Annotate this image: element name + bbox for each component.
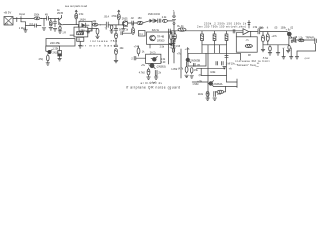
svg-text:Input: Input	[19, 12, 25, 16]
capacitor to ground	[96, 28, 99, 34]
resistor 150k	[34, 17, 40, 20]
svg-text:ft: ft	[267, 27, 269, 30]
svg-text:1 R: 1 R	[62, 32, 66, 34]
wire drop	[43, 18, 45, 26]
ground	[213, 97, 217, 99]
feedback box	[236, 37, 257, 52]
wire	[149, 44, 151, 48]
ground	[78, 45, 82, 47]
svg-text:.05: .05	[274, 27, 278, 30]
wire branch right	[46, 46, 60, 51]
capacitor after diodes	[158, 19, 160, 22]
svg-text:(0.: (0.	[199, 74, 202, 77]
wire	[136, 57, 146, 59]
wire emitter	[288, 36, 290, 45]
svg-text:0.1: 0.1	[139, 33, 143, 36]
transistor Q7	[186, 58, 190, 62]
wire B+ rail	[173, 12, 175, 16]
transistor Q2	[122, 21, 127, 26]
capacitor on column	[225, 55, 228, 57]
resistor pair left a	[170, 31, 172, 34]
ground	[87, 31, 90, 33]
detector box T1	[79, 21, 92, 31]
wire	[40, 17, 46, 19]
svg-text:+17k: +17k	[271, 35, 277, 38]
svg-text:2N363B: 2N363B	[190, 59, 200, 63]
pickup transducer box X1	[4, 17, 13, 26]
svg-text:2N363A: 2N363A	[213, 83, 222, 86]
wire drop mid b	[219, 45, 221, 54]
svg-text:150: 150	[138, 17, 143, 20]
wire bus	[170, 30, 243, 32]
svg-text:1 Mfd: 1 Mfd	[192, 83, 199, 86]
resistor vertical mid	[132, 23, 134, 28]
svg-text:m.: m.	[257, 66, 260, 68]
ground	[185, 74, 189, 76]
wire	[49, 17, 59, 19]
svg-text:(0.1: (0.1	[29, 23, 34, 26]
svg-text:150k: 150k	[34, 14, 40, 17]
wire	[215, 91, 217, 93]
ground	[25, 26, 27, 30]
driver box	[146, 54, 161, 63]
volume control box	[46, 39, 75, 47]
resistor column 3	[225, 34, 228, 41]
resistor 150	[137, 21, 143, 24]
output box left	[187, 53, 189, 66]
capacitor .05 d	[192, 63, 194, 66]
svg-text:1N34 1N34: 1N34 1N34	[148, 13, 161, 16]
svg-text:+A: +A	[229, 67, 232, 70]
transistor Q3	[150, 35, 156, 41]
node B	[100, 24, 101, 25]
ground	[268, 52, 272, 54]
resistor inside pot	[77, 32, 84, 35]
transistor Q6	[287, 32, 292, 37]
ground	[282, 56, 285, 58]
capacitor on rail	[172, 36, 175, 38]
wire	[167, 20, 174, 22]
SECTION: q1 stage	[57, 5, 88, 34]
resistor emitter q1	[59, 27, 61, 31]
wire cross lower	[201, 74, 226, 76]
capacitor 50	[290, 40, 292, 42]
wire emitter to ground	[59, 24, 61, 27]
ground	[42, 27, 46, 29]
wiper wire	[70, 34, 74, 36]
ground	[276, 52, 280, 54]
emitter bus wire	[263, 44, 289, 46]
wire	[108, 24, 122, 26]
capacitor .05 out	[257, 29, 259, 34]
wire	[143, 21, 150, 23]
wire	[224, 86, 226, 92]
svg-text:1 25k: 1 25k	[53, 47, 60, 50]
wire feedback vertical	[236, 79, 238, 82]
supply arrow	[118, 11, 120, 14]
svg-text:(0.02: (0.02	[305, 58, 311, 60]
svg-text:(2N363): (2N363)	[157, 65, 166, 68]
wire	[187, 48, 189, 58]
output box top edge	[188, 52, 240, 54]
wire	[13, 18, 34, 20]
capacitor	[114, 44, 117, 46]
svg-text:if airplane QR noise (guard: if airplane QR noise (guard	[126, 86, 180, 90]
capacitor bus input	[168, 29, 170, 33]
wire	[91, 24, 94, 26]
wire	[173, 24, 175, 36]
resistor 47k vertical b	[47, 55, 50, 61]
svg-text:4.7k0: 4.7k0	[139, 71, 146, 74]
svg-text:110k: 110k	[198, 93, 204, 96]
resistor rail	[172, 48, 174, 52]
resistor vertical	[115, 33, 118, 39]
ground jack return	[295, 56, 298, 58]
capacitor 2k	[154, 70, 156, 75]
resistor 10k	[93, 23, 98, 26]
wire cross upper	[197, 67, 226, 69]
wire return	[297, 44, 316, 56]
long wire column3	[226, 53, 228, 82]
capacitor pair a	[215, 62, 217, 66]
resistor 470k vertical	[117, 14, 120, 20]
resistor drop b	[267, 32, 269, 34]
svg-text:2.2k: 2.2k	[162, 16, 167, 19]
input jack J1	[20, 17, 22, 22]
resistor 4.7k vertical	[147, 69, 150, 75]
capacitor .02	[131, 21, 133, 25]
svg-text:TRFAIR: TRFAIR	[305, 37, 314, 40]
ground	[290, 56, 293, 58]
wire bottom left	[192, 81, 208, 83]
wire rail stub	[172, 40, 174, 48]
coupling tick	[16, 18, 18, 22]
capacitor C1	[105, 22, 107, 27]
capacitor to ground	[54, 18, 56, 21]
svg-text:1R500: 1R500	[157, 39, 165, 42]
capacitor pair b	[221, 62, 223, 66]
SECTION: detector	[79, 10, 174, 35]
svg-text:1k: 1k	[142, 51, 145, 54]
resistor feedback b	[217, 90, 224, 93]
capacitor horizontal	[120, 32, 122, 35]
SECTION: bus columns	[131, 22, 247, 85]
ground stub	[223, 66, 226, 68]
ground	[49, 27, 53, 29]
svg-text:50: 50	[294, 42, 297, 44]
transistor Q4	[152, 57, 156, 61]
svg-text:2.5k: 2.5k	[160, 45, 165, 48]
resistor feedback	[245, 44, 252, 47]
wire drop mid a	[207, 45, 209, 54]
output box bottom	[188, 65, 206, 67]
wire inverting input	[236, 33, 243, 37]
transistor Q5	[150, 63, 155, 68]
svg-text:+.05: +.05	[185, 48, 190, 51]
svg-text:-7v: -7v	[245, 39, 249, 42]
SECTION: output	[257, 27, 317, 68]
svg-text:B+ 9v: B+ 9v	[177, 25, 184, 28]
svg-text:20k: 20k	[120, 47, 125, 50]
ground	[110, 30, 113, 32]
resistor drop a	[262, 32, 264, 35]
svg-text:+B 3V: +B 3V	[4, 11, 12, 15]
ground	[58, 30, 62, 32]
op-amp U1	[243, 29, 249, 35]
resistor column 2	[213, 34, 216, 41]
svg-text:2N35: 2N35	[122, 18, 128, 21]
svg-text:7k: 7k	[105, 29, 108, 31]
svg-text:1 Mf 10v: 1 Mf 10v	[226, 62, 236, 65]
resistor vertical lower	[115, 49, 118, 55]
svg-text:"Scream" freq.: "Scream" freq.	[236, 63, 257, 67]
capacitor 10v	[213, 92, 215, 97]
output box far edge	[239, 53, 241, 60]
svg-text:+ 9v: + 9v	[197, 80, 203, 83]
wire emitter q2	[123, 25, 125, 28]
node feedback	[250, 31, 251, 32]
antenna stub	[248, 21, 250, 29]
diode D2	[150, 19, 153, 23]
wire	[173, 38, 175, 63]
wire feedback	[250, 32, 252, 37]
ground	[122, 28, 125, 30]
wire collector	[213, 85, 237, 87]
svg-text:1 Meg: 1 Meg	[19, 27, 27, 30]
small box 0.1	[139, 31, 146, 37]
svg-text:470k: 470k	[111, 15, 117, 18]
capacitor C in	[46, 16, 48, 20]
svg-text:2k: 2k	[158, 72, 161, 75]
SECTION: input	[4, 11, 59, 33]
stack capacitor	[115, 25, 117, 28]
capacitor 0.1	[34, 24, 36, 28]
resistor q7 a	[185, 67, 188, 73]
SECTION: if box	[114, 10, 184, 64]
output box right	[205, 53, 207, 66]
svg-text:·2: ·2	[131, 57, 134, 60]
wire branch	[88, 27, 98, 29]
capacitor drop c	[269, 45, 271, 46]
svg-text:100k: 100k	[259, 27, 265, 30]
wire drop d	[277, 45, 279, 52]
ground	[147, 76, 151, 78]
svg-text:2mv 250 750k 150 mtr(volt,ohm): 2mv 250 750k 150 mtr(volt,ohm)	[197, 25, 246, 29]
wire lower branch	[26, 22, 35, 26]
transistor Q8	[209, 81, 213, 85]
wire	[98, 24, 106, 26]
resistor 2.2k	[162, 19, 167, 22]
battery B2	[172, 15, 175, 17]
column 3 wire	[226, 31, 228, 34]
SECTION: bottom stages	[161, 33, 241, 100]
svg-text:100k: 100k	[210, 71, 216, 74]
resistor pair left b	[174, 31, 176, 34]
svg-text:Mf: Mf	[248, 54, 251, 57]
resistor 47k vertical	[50, 18, 52, 20]
svg-text:+ 9v: + 9v	[286, 29, 292, 32]
wire	[260, 31, 288, 33]
column 2 wire	[214, 31, 216, 34]
SECTION: middle-left	[39, 25, 118, 66]
ground	[169, 42, 173, 44]
wire	[115, 30, 117, 33]
svg-text:47k): 47k)	[39, 58, 44, 61]
wire mid rail	[207, 53, 209, 99]
svg-text:al D.L.P. 4v: al D.L.P. 4v	[141, 81, 163, 85]
wire	[37, 25, 42, 27]
svg-text:4.0k: 4.0k	[161, 59, 166, 61]
capacitor .05 final	[293, 38, 295, 41]
svg-text:240 25k: 240 25k	[50, 41, 61, 45]
wire	[127, 22, 131, 24]
svg-text:for more bass: for more bass	[80, 43, 116, 47]
svg-text:1 Mf: 1 Mf	[176, 46, 181, 48]
column 1 wire	[201, 31, 203, 34]
ground	[206, 97, 210, 99]
wire main	[63, 24, 79, 26]
wire left rail b	[168, 33, 170, 64]
svg-text:15k: 15k	[194, 69, 199, 72]
ground	[53, 28, 57, 30]
svg-text:2k: 2k	[126, 29, 129, 31]
wire output	[292, 39, 315, 41]
electrolytic capacitor	[58, 51, 62, 57]
earphone jack	[314, 38, 316, 44]
svg-text:+.05: +.05	[293, 37, 298, 39]
svg-text:TR-4B: TR-4B	[157, 35, 165, 38]
wire	[78, 25, 80, 28]
svg-text:1.5k: 1.5k	[79, 13, 84, 16]
wire gnd stub a	[283, 49, 285, 57]
ground	[58, 58, 62, 60]
meter circle	[173, 22, 175, 24]
transistor Q9	[48, 50, 52, 54]
transformer box TR-4B	[147, 32, 173, 44]
wire output	[249, 31, 258, 33]
wire	[79, 41, 81, 45]
svg-text:2N35: 2N35	[57, 12, 64, 15]
resistor emitter	[288, 45, 290, 49]
ground	[190, 75, 194, 77]
wire gnd stub b	[290, 49, 292, 57]
capacitor bus end	[232, 30, 234, 33]
svg-text:1 2k: 1 2k	[88, 30, 93, 32]
node A	[41, 18, 42, 19]
resistor 750 on bus	[178, 28, 186, 31]
resistor 1.2k	[299, 39, 304, 42]
svg-text:+v: +v	[282, 47, 285, 49]
resistor 110k	[206, 91, 209, 97]
svg-text:+v: +v	[290, 47, 293, 49]
svg-text:+5v: +5v	[141, 64, 146, 67]
wire corner	[227, 82, 238, 88]
cross wire	[202, 44, 227, 46]
svg-text:see our parts to ad: see our parts to ad	[65, 5, 88, 8]
supply arrow	[75, 11, 77, 14]
ground	[96, 35, 100, 37]
svg-text:1.5k: 1.5k	[253, 26, 258, 29]
resistor to ground	[110, 25, 113, 29]
resistor 1.5k vertical	[75, 14, 78, 19]
capacitor rail	[172, 42, 175, 44]
ground	[286, 49, 290, 51]
svg-text:1.05k: 1.05k	[171, 68, 178, 71]
wire drop between	[200, 68, 202, 75]
wire left rail	[180, 49, 182, 78]
resistor q7 b	[190, 68, 193, 73]
svg-text:.02: .02	[130, 17, 134, 20]
ground	[261, 48, 265, 50]
wire	[134, 22, 137, 24]
ground	[46, 62, 50, 64]
svg-text:2.20: 2.20	[161, 62, 166, 64]
resistor 1k vertical	[137, 48, 140, 54]
svg-text:10k: 10k	[92, 20, 97, 23]
resistor column 1	[201, 34, 204, 41]
SECTION: annotations	[126, 59, 270, 90]
svg-text:+)(·05: +)(·05	[170, 48, 177, 50]
SECTION: opamp	[233, 21, 287, 58]
ground	[154, 76, 158, 78]
wire from box3	[45, 46, 47, 51]
ground	[114, 59, 118, 61]
pot box	[74, 27, 88, 37]
diode D1	[82, 23, 86, 28]
diode D3	[154, 19, 157, 23]
svg-text:.05 A: .05 A	[104, 16, 110, 19]
trimmer box	[77, 37, 84, 41]
transistor Q1	[57, 18, 60, 19]
